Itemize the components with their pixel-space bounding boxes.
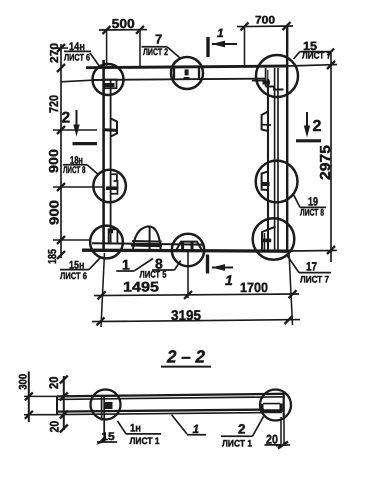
svg-text:900: 900 [46,149,61,173]
svg-text:2: 2 [313,118,322,135]
section marker 1 top [206,37,209,57]
svg-text:ЛИСТ 1: ЛИСТ 1 [130,436,161,447]
svg-text:20: 20 [47,376,61,389]
corner bracket in C3 [265,68,267,87]
svg-text:1: 1 [217,26,224,40]
section bar bottom edge lines [57,410,264,412]
detail circle C5 bottom-left corner [90,226,123,259]
svg-text:1н: 1н [130,423,141,435]
left member outer line [102,60,105,252]
chain tick y187 [57,183,65,191]
chain tick y68 [57,64,65,72]
section marker 1 bottom [206,255,209,274]
svg-text:ЛИСТ 6: ЛИСТ 6 [64,53,90,64]
right member line a [267,79,269,250]
svg-text:2 – 2: 2 – 2 [166,347,205,367]
dim 700 line [237,25,293,28]
detail circle C2 top-middle splice [171,57,203,89]
corner plate in C1 [104,80,117,89]
svg-text:ЛИСТ 6: ЛИСТ 6 [60,271,87,282]
tab T1 on left member [111,119,117,137]
detail circle C8 bottom-right corner [253,218,295,260]
dim 1700 line [193,293,299,296]
svg-text:ЛИСТ 7: ЛИСТ 7 [300,275,329,286]
right member line c [277,68,279,250]
svg-text:1: 1 [225,272,233,288]
chain tick y240 [57,236,65,244]
svg-text:1: 1 [193,422,200,436]
svg-text:2975: 2975 [318,145,334,180]
detail circle C3 top-right corner [256,55,298,97]
svg-text:185: 185 [47,249,59,264]
detail circle C4 left-middle [93,170,126,203]
svg-text:19: 19 [308,195,318,209]
bottom member extension right to 2975 dim [290,249,337,252]
top member bottom edge [92,79,266,80]
detail circle C6 bottom-middle splice [172,234,204,266]
dim 3195 line [92,320,300,322]
bracket tab in C4 [110,174,117,194]
top member top edge + right extension to 2975 dim [86,66,288,68]
dim 500 line [99,29,147,31]
top member bottom edge left stub to chain [61,80,92,82]
right member line b [274,68,276,250]
svg-text:1: 1 [122,257,130,273]
detail circle C7 right-middle [256,161,298,203]
svg-text:ЛИСТ 5: ЛИСТ 5 [140,270,168,281]
bracket tab in C7 [262,171,268,190]
svg-text:500: 500 [112,16,135,31]
bottom member top edge [92,243,203,244]
cover plate hat in C6 [177,242,202,250]
tab T2 on right member [262,112,268,132]
svg-text:3195: 3195 [171,307,201,323]
svg-text:ЛИСТ 2: ЛИСТ 2 [143,47,168,58]
dim 700 extension [244,26,246,66]
detail circle C1 top-left corner [93,64,124,95]
svg-text:7: 7 [155,32,162,47]
dim 20 right with extension [280,417,282,446]
left member inner line [110,80,112,244]
section detail circle left [91,390,121,420]
extension below bottom-right corner [289,252,293,325]
corner plate in C5 [109,229,118,243]
bottom member bottom edge thick [82,250,290,251]
svg-text:300: 300 [18,374,30,390]
splice joint lines in C2 [173,68,175,80]
dim 1495 line [94,294,193,297]
section bar top edge lines [57,394,285,397]
svg-text:2: 2 [62,110,71,127]
dim 20 top line [63,376,65,430]
svg-text:1495: 1495 [123,279,159,295]
bracket tab in C8 [262,227,276,250]
svg-text:ЛИСТ 7: ЛИСТ 7 [302,51,331,62]
svg-text:17: 17 [306,260,317,274]
svg-text:ЛИСТ 1: ЛИСТ 1 [222,439,253,450]
right end J hook [261,404,264,413]
section bar right end line [283,394,285,417]
svg-text:20: 20 [48,421,62,433]
svg-text:720: 720 [47,95,61,113]
lifting loop dome on bottom member [133,226,161,250]
svg-text:2: 2 [238,422,246,437]
left chain dimension line [60,44,62,258]
dim 2975 line [330,53,332,262]
dim 300 line [28,372,30,423]
svg-text:ЛИСТ 8: ЛИСТ 8 [63,165,86,176]
svg-text:700: 700 [255,15,275,27]
chain tick y130 [57,126,65,134]
chain tick y255 [57,251,65,259]
extension below bottom-left corner [101,253,105,327]
svg-text:ЛИСТ 8: ЛИСТ 8 [300,208,324,219]
section bar left end cap [56,396,58,414]
chain tick y48 [57,44,65,52]
extension below bottom-middle splice [187,252,189,298]
weld angle in left circle [101,397,103,421]
svg-text:270: 270 [49,43,61,63]
section detail circle right [260,390,291,421]
svg-text:900: 900 [47,200,62,225]
right member outer line + extension up to 700 dim [286,26,288,251]
dim 500 extension lines [106,30,108,67]
svg-text:1700: 1700 [240,280,268,295]
